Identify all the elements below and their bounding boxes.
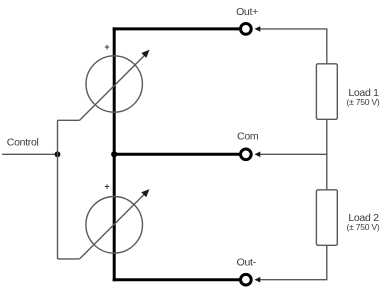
svg-text:Out-: Out- <box>237 257 257 269</box>
wire: top return line with arrow into Out+ <box>260 28 328 30</box>
variable source U1: arrowhead <box>142 50 149 57</box>
wire: control link to upper source <box>58 119 80 121</box>
wire: control vertical line <box>57 120 59 259</box>
variable source U1 (upper): circle <box>86 56 142 112</box>
variable source U2 (lower): circle <box>86 197 143 254</box>
resistor Load 1: body <box>316 64 337 120</box>
wire: control link to lower source <box>58 258 80 260</box>
svg-text:+: + <box>104 182 109 192</box>
variable source U2: arrowhead <box>142 190 149 197</box>
wire: right-side load string vertical <box>326 29 328 280</box>
terminal Out+ : ring <box>241 24 252 35</box>
wire: bottom return line with arrow into Out- <box>260 279 328 281</box>
arrowhead into Out- <box>255 277 261 283</box>
wire: middle return line with arrow into Com <box>260 153 328 155</box>
wire: thick middle bus to Com terminal <box>114 153 239 156</box>
resistor Load 2: body <box>316 190 337 246</box>
wire: thick main vertical bus <box>113 27 116 281</box>
junction: control line tee <box>55 151 61 157</box>
wire: thick top bus from corner to Out+ terminal <box>113 27 240 30</box>
terminal Com : ring <box>241 149 252 160</box>
svg-text:Out+: Out+ <box>236 6 258 18</box>
junction: main bus / Com line <box>111 151 117 157</box>
variable source U1: adjustment arrow shaft <box>80 55 145 120</box>
svg-text:Control: Control <box>7 137 39 149</box>
arrowhead into Com <box>255 152 261 158</box>
node Control: lead wire <box>2 153 58 155</box>
wire: thick bottom bus to Out- terminal <box>113 278 240 281</box>
svg-text:Com: Com <box>237 131 259 143</box>
svg-text:(± 750 V): (± 750 V) <box>346 222 379 232</box>
svg-text:(± 750 V): (± 750 V) <box>346 97 379 107</box>
svg-text:+: + <box>104 42 109 52</box>
terminal Out- : ring <box>241 274 252 285</box>
variable source U2: adjustment arrow shaft <box>80 194 145 259</box>
arrowhead into Out+ <box>255 26 261 32</box>
